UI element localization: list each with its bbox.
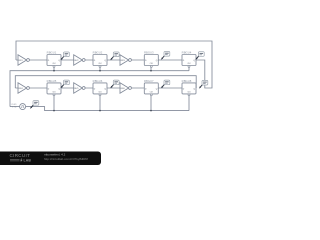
svg-text:INV4: INV4 [19, 88, 23, 90]
svg-text:RBGU8: RBGU8 [182, 79, 192, 83]
svg-text:INV3: INV3 [121, 60, 125, 62]
svg-text:RBGU1: RBGU1 [47, 51, 57, 55]
svg-text:INV1: INV1 [19, 60, 23, 62]
svg-text:RBGU4: RBGU4 [182, 51, 192, 55]
svg-text:http://circuitlab.com/c/37ky8d: http://circuitlab.com/c/37ky8dbf9f [44, 157, 88, 161]
svg-text:INV5: INV5 [74, 88, 78, 90]
svg-text:LAB: LAB [24, 158, 32, 162]
svg-text:RBGU5: RBGU5 [47, 79, 57, 83]
svg-text:RBGU7: RBGU7 [144, 79, 154, 83]
svg-text:mbonselen | 4.2: mbonselen | 4.2 [44, 152, 66, 156]
svg-text:RBGU2: RBGU2 [93, 51, 103, 55]
svg-text:INV2: INV2 [74, 60, 78, 62]
svg-text:1 Hz: 1 Hz [12, 107, 16, 109]
svg-text:RBGU3: RBGU3 [144, 51, 154, 55]
svg-text:RBGU6: RBGU6 [93, 79, 103, 83]
svg-text:INV6: INV6 [121, 88, 125, 90]
svg-text:CLK1: CLK1 [11, 104, 17, 106]
